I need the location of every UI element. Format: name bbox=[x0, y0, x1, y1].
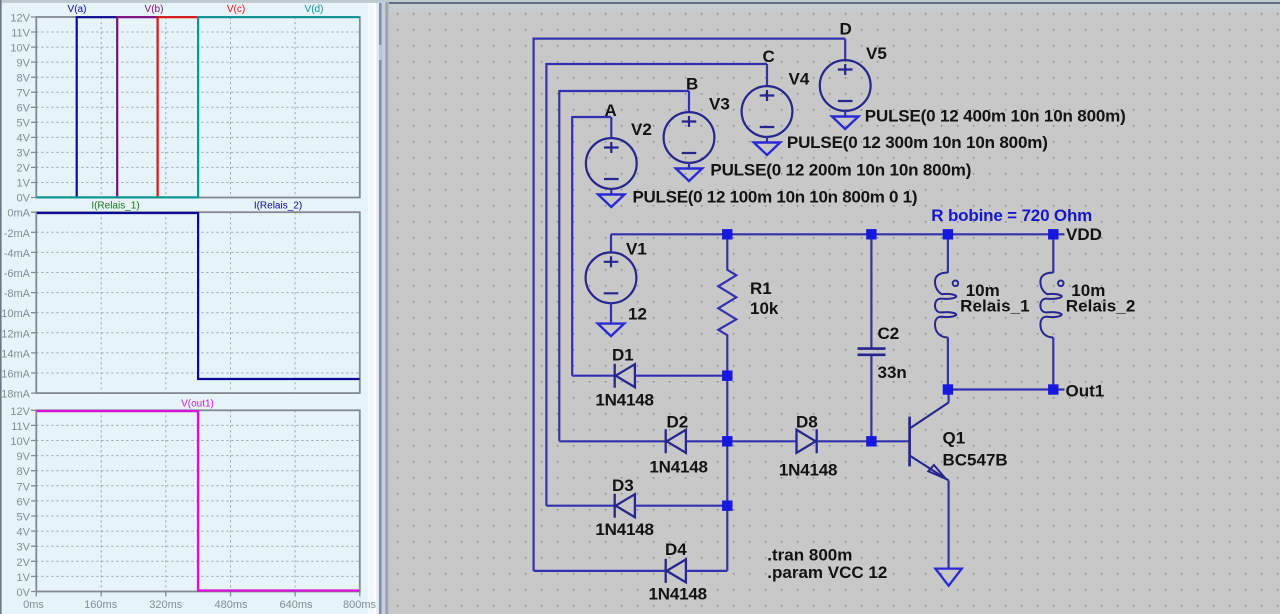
svg-text:D: D bbox=[840, 20, 852, 39]
svg-text:C2: C2 bbox=[878, 324, 900, 343]
wire Q1 base bbox=[871, 440, 908, 442]
wire net B horizontal bbox=[559, 90, 689, 92]
wire V5 top stub bbox=[844, 39, 846, 61]
pane 3 border bbox=[36, 410, 360, 591]
pane 1 y ticks bbox=[31, 17, 36, 198]
voltage source V1 bbox=[586, 252, 637, 303]
voltage source V5 bbox=[820, 60, 871, 111]
inductor Relais_2 top wire bbox=[1052, 234, 1054, 273]
wire D1 row left bbox=[572, 375, 615, 377]
svg-text:4V: 4V bbox=[17, 527, 31, 539]
svg-text:5V: 5V bbox=[17, 118, 31, 130]
svg-text:V(c): V(c) bbox=[227, 4, 245, 15]
wire diode bus vertical bbox=[726, 376, 728, 571]
svg-text:-14mA: -14mA bbox=[0, 348, 31, 360]
pane 2 grid bbox=[36, 212, 360, 393]
svg-text:9V: 9V bbox=[17, 451, 31, 463]
svg-text:2V: 2V bbox=[17, 557, 31, 569]
svg-text:7V: 7V bbox=[17, 88, 31, 100]
pane 1 y labels bbox=[10, 13, 30, 205]
wire V4 top stub bbox=[766, 64, 768, 87]
svg-text:6V: 6V bbox=[17, 103, 31, 115]
transistor Q1 bbox=[910, 403, 949, 481]
svg-text:1V: 1V bbox=[17, 572, 31, 584]
diode D3 bbox=[615, 494, 635, 518]
svg-text:BC547B: BC547B bbox=[943, 451, 1008, 470]
junction VDD-C2 bbox=[866, 229, 876, 239]
junction Out1 bbox=[1048, 384, 1058, 394]
svg-text:V5: V5 bbox=[866, 44, 887, 63]
svg-text:-12mA: -12mA bbox=[0, 328, 31, 340]
svg-text:12: 12 bbox=[628, 305, 647, 324]
svg-text:-10mA: -10mA bbox=[0, 308, 31, 320]
wire C2 top bbox=[870, 234, 872, 348]
svg-text:.param VCC 12: .param VCC 12 bbox=[767, 563, 887, 582]
LEFT WAVEFORM PANEL BACKGROUND bbox=[0, 0, 383, 614]
wire D2 row left bbox=[559, 440, 665, 442]
svg-text:PULSE(0 12 400m 10n 10n 800m): PULSE(0 12 400m 10n 10n 800m) bbox=[865, 107, 1126, 126]
junction VDD-Relais_2 bbox=[1048, 229, 1058, 239]
svg-text:3V: 3V bbox=[17, 542, 31, 554]
svg-text:V(b): V(b) bbox=[145, 4, 164, 15]
svg-text:0V: 0V bbox=[17, 193, 31, 205]
diode D8 bbox=[797, 429, 817, 453]
junction D8-C2-base bbox=[866, 436, 876, 446]
ground at Q1 emitter bbox=[935, 569, 961, 586]
inductor Relais_1 bbox=[935, 273, 958, 338]
voltage source V2 bbox=[586, 138, 637, 189]
wire D8 row right bbox=[817, 440, 872, 442]
svg-text:11V: 11V bbox=[11, 421, 30, 433]
svg-text:Relais_1: Relais_1 bbox=[960, 297, 1030, 316]
junction VDD-Relais_1 bbox=[943, 229, 953, 239]
svg-text:1N4148: 1N4148 bbox=[595, 520, 654, 539]
svg-text:PULSE(0 12 300m 10n 10n 800m): PULSE(0 12 300m 10n 10n 800m) bbox=[787, 133, 1048, 152]
svg-text:640ms: 640ms bbox=[279, 599, 313, 611]
svg-text:6V: 6V bbox=[17, 496, 31, 508]
junction D1-R1 bbox=[722, 371, 732, 381]
svg-text:8V: 8V bbox=[17, 73, 31, 85]
svg-text:PULSE(0 12 200m 10n 10n 800m): PULSE(0 12 200m 10n 10n 800m) bbox=[710, 161, 971, 180]
inductor Relais_2 bottom wire bbox=[1052, 337, 1054, 389]
svg-text:Out1: Out1 bbox=[1066, 381, 1105, 400]
window top border bbox=[0, 0, 1280, 2]
wire D4 row left bbox=[534, 570, 666, 572]
junction Relais_1-collector bbox=[943, 384, 953, 394]
inductor Relais_1 bottom wire bbox=[947, 337, 949, 389]
diode D4 bbox=[666, 559, 686, 583]
pane 3 y labels bbox=[10, 406, 30, 599]
svg-text:D3: D3 bbox=[612, 476, 634, 495]
svg-text:-16mA: -16mA bbox=[0, 369, 31, 381]
trace V(a) bbox=[77, 17, 118, 197]
left window edge bbox=[0, 0, 2, 614]
wire Q1 collector stub bbox=[947, 390, 949, 403]
svg-text:1N4148: 1N4148 bbox=[649, 585, 708, 604]
wire D3 row right bbox=[635, 505, 727, 507]
svg-text:160ms: 160ms bbox=[84, 599, 118, 611]
svg-text:D1: D1 bbox=[612, 346, 634, 365]
svg-text:10V: 10V bbox=[10, 436, 30, 448]
svg-text:I(Relais_2): I(Relais_2) bbox=[254, 201, 302, 212]
svg-text:0ms: 0ms bbox=[23, 599, 44, 611]
wire Q1 emitter down bbox=[947, 481, 949, 569]
pane 1 grid bbox=[36, 17, 360, 198]
svg-text:PULSE(0 12 100m 10n 10n 800m 0: PULSE(0 12 100m 10n 10n 800m 0 1) bbox=[633, 188, 918, 207]
ground below V3 bbox=[688, 163, 690, 169]
trace I(Relais_2) bbox=[37, 213, 360, 379]
svg-text:B: B bbox=[686, 75, 698, 94]
trace V(b) bbox=[117, 17, 157, 197]
svg-text:R1: R1 bbox=[750, 279, 772, 298]
wire D8 row left bbox=[727, 440, 796, 442]
wire D2 row right bbox=[686, 440, 727, 442]
inductor Relais_2 bbox=[1040, 273, 1063, 338]
svg-text:V(a): V(a) bbox=[68, 4, 87, 15]
svg-text:V(out1): V(out1) bbox=[181, 399, 214, 410]
svg-text:V2: V2 bbox=[631, 120, 652, 139]
wire net D horizontal bbox=[534, 37, 845, 39]
ground below V2 bbox=[610, 189, 612, 195]
pane 2 trace labels bbox=[91, 201, 302, 212]
svg-text:-2mA: -2mA bbox=[4, 228, 31, 240]
svg-text:11V: 11V bbox=[11, 28, 30, 40]
svg-text:12V: 12V bbox=[10, 13, 30, 25]
diode D1 bbox=[615, 364, 635, 388]
junction D3 bus bbox=[722, 501, 732, 511]
resistor R1 bbox=[718, 234, 736, 375]
svg-text:7V: 7V bbox=[17, 481, 31, 493]
pane 2 y ticks bbox=[31, 212, 36, 393]
svg-text:1V: 1V bbox=[17, 178, 31, 190]
svg-text:5V: 5V bbox=[17, 512, 31, 524]
wire V2 top stub bbox=[610, 117, 612, 139]
wire V1 ground stem bbox=[610, 303, 612, 324]
wire Out1 rail bbox=[948, 388, 1065, 390]
wire net A vertical bus bbox=[571, 116, 573, 376]
svg-text:V3: V3 bbox=[709, 95, 730, 114]
svg-text:VDD: VDD bbox=[1066, 225, 1102, 244]
inductor Relais_1 top wire bbox=[947, 234, 949, 273]
svg-text:10k: 10k bbox=[750, 299, 779, 318]
wire net C vertical bus bbox=[545, 63, 547, 506]
svg-text:V4: V4 bbox=[789, 70, 810, 89]
svg-text:V1: V1 bbox=[626, 240, 647, 259]
wire net D vertical bus bbox=[532, 38, 534, 571]
junction VDD-R1 bbox=[722, 229, 732, 239]
svg-text:-6mA: -6mA bbox=[4, 268, 31, 280]
svg-text:0mA: 0mA bbox=[7, 208, 30, 220]
ground below V5 bbox=[844, 111, 846, 117]
wire C2 bottom bbox=[870, 356, 872, 442]
junction D2-D8 bbox=[722, 436, 732, 446]
wire net B vertical bus bbox=[558, 90, 560, 441]
svg-text:12V: 12V bbox=[10, 406, 30, 418]
svg-text:-4mA: -4mA bbox=[4, 248, 31, 260]
svg-text:.tran 800m: .tran 800m bbox=[767, 546, 852, 565]
svg-text:320ms: 320ms bbox=[149, 599, 183, 611]
svg-text:V(d): V(d) bbox=[305, 4, 324, 15]
svg-text:9V: 9V bbox=[17, 58, 31, 70]
svg-text:-8mA: -8mA bbox=[4, 288, 31, 300]
svg-text:I(Relais_1): I(Relais_1) bbox=[91, 201, 139, 212]
svg-text:480ms: 480ms bbox=[214, 599, 248, 611]
wire net C horizontal bbox=[546, 63, 767, 65]
svg-text:1N4148: 1N4148 bbox=[779, 461, 838, 480]
pane 1 border bbox=[36, 17, 360, 198]
pane 2 border bbox=[36, 212, 360, 393]
svg-text:33n: 33n bbox=[878, 363, 907, 382]
trace V(d) bbox=[37, 17, 360, 197]
pane 3 y ticks bbox=[31, 410, 36, 591]
ground below V1 bbox=[598, 324, 624, 337]
voltage source V3 bbox=[664, 112, 715, 163]
ground below V4 bbox=[766, 137, 768, 143]
wire D4 row right bbox=[686, 570, 727, 572]
svg-text:D2: D2 bbox=[667, 413, 689, 432]
wire V1 top stub bbox=[610, 234, 612, 253]
svg-text:Relais_2: Relais_2 bbox=[1066, 297, 1136, 316]
svg-text:10V: 10V bbox=[10, 43, 30, 55]
svg-text:8V: 8V bbox=[17, 466, 31, 478]
wire D3 row left bbox=[546, 505, 614, 507]
svg-text:D8: D8 bbox=[796, 413, 818, 432]
pane 2 y labels bbox=[0, 208, 31, 401]
svg-text:3V: 3V bbox=[17, 148, 31, 160]
wire VDD rail bbox=[611, 233, 1065, 235]
capacitor C2 bbox=[858, 349, 886, 355]
svg-text:0V: 0V bbox=[17, 587, 31, 599]
svg-text:800ms: 800ms bbox=[343, 599, 377, 611]
pane 3 x labels bbox=[23, 599, 376, 611]
svg-text:1N4148: 1N4148 bbox=[649, 458, 708, 477]
diode D2 bbox=[666, 429, 686, 453]
trace V(out1) bbox=[37, 411, 360, 590]
divider / scrollbar strip bbox=[368, 0, 376, 614]
svg-text:4V: 4V bbox=[17, 133, 31, 145]
wire V3 top stub bbox=[688, 91, 690, 113]
voltage source V4 bbox=[742, 86, 793, 137]
svg-text:C: C bbox=[763, 47, 775, 66]
svg-text:Q1: Q1 bbox=[943, 429, 966, 448]
svg-text:-18mA: -18mA bbox=[0, 389, 31, 401]
trace V(c) bbox=[158, 17, 199, 197]
svg-text:2V: 2V bbox=[17, 163, 31, 175]
svg-text:D4: D4 bbox=[665, 540, 687, 559]
svg-text:R bobine = 720 Ohm: R bobine = 720 Ohm bbox=[931, 206, 1092, 225]
pane 1 trace labels bbox=[68, 4, 324, 15]
SCHEMATIC BACKGROUND bbox=[389, 0, 1280, 614]
pane 3 grid bbox=[36, 410, 360, 591]
pane 3 x ticks bbox=[36, 592, 360, 597]
wire D1 row right bbox=[635, 375, 727, 377]
wire net A horizontal bbox=[572, 116, 611, 118]
svg-text:1N4148: 1N4148 bbox=[595, 391, 654, 410]
